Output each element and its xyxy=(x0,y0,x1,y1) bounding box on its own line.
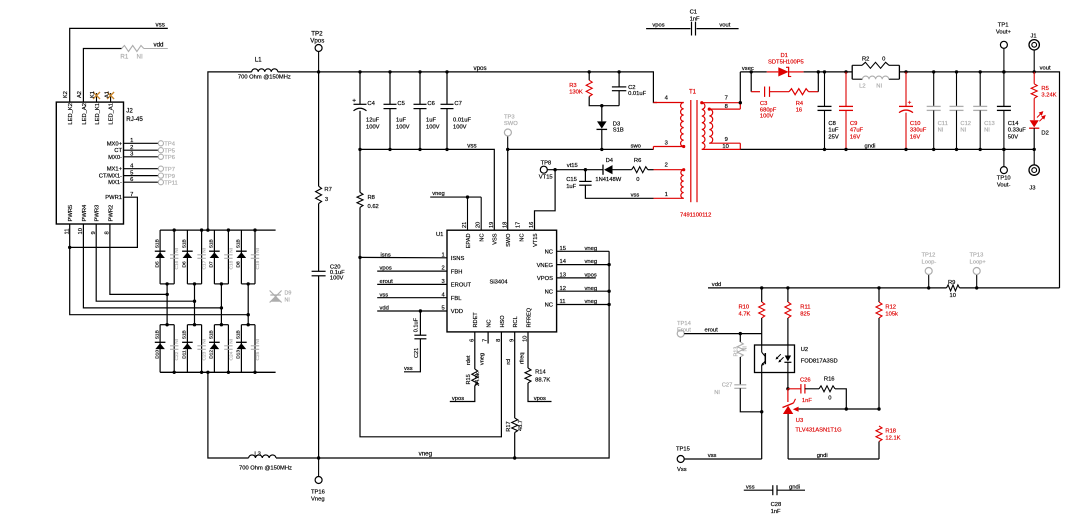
LED U2 input diode xyxy=(784,345,791,373)
svg-text:700 Ohm @150MHz: 700 Ohm @150MHz xyxy=(238,74,291,80)
wire C27 to emitter xyxy=(740,388,761,412)
pin number 9 xyxy=(91,231,97,234)
resistor R14 xyxy=(525,368,531,383)
label TP16 xyxy=(311,489,325,495)
label D6 xyxy=(182,261,188,267)
diode D3 symbol xyxy=(597,121,608,129)
wire vdd to R10 xyxy=(761,288,763,302)
wire C8 to gnd xyxy=(823,110,826,151)
junction snubber right xyxy=(817,70,820,73)
svg-text:PWR2: PWR2 xyxy=(108,205,114,222)
svg-text:FBL: FBL xyxy=(451,296,462,302)
svg-text:D6: D6 xyxy=(182,261,188,267)
no-connect X on K1 xyxy=(93,92,100,99)
svg-text:D11: D11 xyxy=(182,350,188,359)
wire C5 to vss rail xyxy=(389,109,391,150)
label TP2 xyxy=(311,30,323,37)
svg-text:S1B: S1B xyxy=(236,239,242,248)
pin label NC U1 right xyxy=(545,289,553,295)
svg-text:1: 1 xyxy=(130,138,133,144)
label TP11 xyxy=(164,180,177,186)
pin number 10 xyxy=(78,228,84,234)
pin number 7 T1 xyxy=(725,96,728,102)
capacitor C17 (NI) xyxy=(197,255,205,258)
testpoint TP16 xyxy=(315,458,322,484)
resistor R7 xyxy=(316,186,322,203)
resistor R16 xyxy=(805,386,835,392)
wire gnd rail xyxy=(740,148,1034,150)
label C17 xyxy=(202,260,208,269)
label U3 value TLV431ASN1T1G xyxy=(795,427,842,433)
svg-text:Vss: Vss xyxy=(677,467,687,473)
label NI of C25 xyxy=(255,339,261,344)
svg-text:R11: R11 xyxy=(800,305,810,311)
net label vpos pin 13 xyxy=(585,273,597,279)
label Loop- xyxy=(922,259,937,265)
svg-text:EPAD: EPAD xyxy=(466,234,472,249)
resistor R8 xyxy=(357,192,363,207)
capacitor C18 (NI) xyxy=(224,255,232,258)
label C13 value NI xyxy=(984,128,990,134)
svg-text:R14: R14 xyxy=(535,370,546,376)
wire bridge column center D6-D11 xyxy=(194,284,196,325)
junction C26 node xyxy=(786,387,789,390)
net label vpos R14 xyxy=(534,396,546,402)
wire net erout xyxy=(684,333,762,335)
svg-text:C5: C5 xyxy=(397,101,404,107)
label TP5 xyxy=(164,148,175,154)
junction cell top D13 xyxy=(247,323,250,326)
wire R6 to T1 pin2 xyxy=(648,169,654,171)
junction ref node R16 xyxy=(845,407,848,410)
wire vss to R8 xyxy=(359,149,361,192)
svg-text:PWR5: PWR5 xyxy=(68,205,74,222)
capacitor C15 xyxy=(579,181,591,185)
junction vss rail C7 xyxy=(445,148,448,151)
label TP6 xyxy=(164,155,175,161)
svg-text:Vout-: Vout- xyxy=(997,183,1011,189)
testpoint TP6 xyxy=(158,154,163,159)
wire U3 anode to gndi xyxy=(787,414,789,459)
junction C8 rail xyxy=(823,70,826,73)
label C24 xyxy=(228,351,234,360)
svg-text:D12: D12 xyxy=(209,350,215,359)
svg-text:SWO: SWO xyxy=(504,121,518,127)
LED D2 symbol xyxy=(1029,112,1045,128)
pin number 20 U1 xyxy=(476,222,482,228)
junction snubber left xyxy=(750,70,753,73)
wire snubber left leg h xyxy=(751,91,760,93)
svg-text:CT: CT xyxy=(114,148,122,154)
junction vss rail R8 xyxy=(358,148,361,151)
svg-text:vpos: vpos xyxy=(380,266,392,272)
svg-text:MX0+: MX0+ xyxy=(107,141,123,147)
svg-text:vpos: vpos xyxy=(534,396,546,402)
label TP4 xyxy=(164,142,175,148)
svg-text:NI: NI xyxy=(202,339,208,344)
svg-text:C25: C25 xyxy=(255,351,261,360)
testpoint TP5 xyxy=(158,148,163,153)
svg-text:3: 3 xyxy=(325,197,328,203)
pin number 3 xyxy=(130,152,133,158)
label C26 xyxy=(800,377,811,383)
junction output rail C14 xyxy=(1002,70,1005,106)
svg-text:vpos: vpos xyxy=(585,273,597,279)
svg-text:16V: 16V xyxy=(910,135,920,141)
svg-text:ISNS: ISNS xyxy=(451,256,465,262)
wire vpos to C7 xyxy=(446,72,448,104)
label D4 xyxy=(606,158,614,164)
label R5 value 3.24K xyxy=(1041,92,1056,98)
svg-text:Vneg: Vneg xyxy=(311,496,325,502)
transformer T1 primary winding 4-3 xyxy=(681,103,684,147)
pin label EROUT U1 xyxy=(451,283,472,289)
testpoint TP3 (white) xyxy=(504,129,511,149)
capacitor C20 xyxy=(312,271,326,276)
svg-text:gndi: gndi xyxy=(865,144,876,150)
svg-text:1nF: 1nF xyxy=(771,509,781,515)
resistor R9 xyxy=(947,285,960,291)
label C16 xyxy=(174,260,180,269)
label C11 xyxy=(938,121,948,127)
label L1 value 700 Ohm @150MHz xyxy=(238,74,291,80)
svg-text:TP9: TP9 xyxy=(164,174,175,180)
label R17 xyxy=(506,421,512,431)
wire vpos to C2 xyxy=(618,72,620,87)
label C11 value NI xyxy=(938,128,944,134)
wire vpos to R7 xyxy=(318,72,320,186)
junction bottom rail at C24 xyxy=(227,371,230,374)
pin label SWO U1 top xyxy=(506,233,512,247)
optocoupler U2 FOD817A3SD body xyxy=(755,345,795,373)
wire C11 to gnd xyxy=(932,110,935,151)
svg-text:NC: NC xyxy=(545,303,553,309)
svg-text:vneg: vneg xyxy=(585,299,598,305)
label NI of C19 xyxy=(255,248,261,253)
junction top rail at C18 xyxy=(227,228,230,231)
label C3 value 100V xyxy=(760,114,774,120)
capacitor C24 (NI) xyxy=(224,346,232,350)
svg-text:NI: NI xyxy=(255,248,261,253)
svg-text:TP4: TP4 xyxy=(164,142,175,148)
wire D3 to swo xyxy=(601,130,603,150)
wire C21 to vss stub xyxy=(404,339,420,372)
junction vpos rail C5 xyxy=(388,70,391,73)
wire vss rail xyxy=(360,149,494,230)
pin number 2 T1 xyxy=(665,163,668,169)
net label vss T1 pin1 xyxy=(631,193,640,199)
svg-text:PWR1: PWR1 xyxy=(105,195,122,201)
svg-text:6: 6 xyxy=(130,177,133,183)
svg-text:Vout+: Vout+ xyxy=(996,30,1012,36)
svg-text:1N4148W: 1N4148W xyxy=(595,177,621,183)
label Loop+ xyxy=(970,259,987,265)
svg-text:VPOS: VPOS xyxy=(537,276,553,282)
label C7 xyxy=(454,101,461,107)
svg-text:C28: C28 xyxy=(771,502,782,508)
wire R12 to divider node xyxy=(878,318,880,409)
label R10 value 4.7K xyxy=(739,312,751,318)
svg-text:R18: R18 xyxy=(885,428,896,434)
svg-text:5: 5 xyxy=(130,170,133,176)
svg-text:VDD: VDD xyxy=(451,309,463,315)
label TP3 xyxy=(504,114,515,120)
junction vpos rail C6 xyxy=(418,70,421,73)
label C10 value 16V xyxy=(910,135,920,141)
svg-text:+: + xyxy=(908,99,912,106)
pin label FBL U1 xyxy=(451,296,462,302)
label D5 xyxy=(154,261,160,267)
diode D5 S1B cell xyxy=(160,230,174,284)
testpoint TP13 (loop+) xyxy=(973,268,980,288)
svg-text:C17: C17 xyxy=(202,260,208,269)
label C21 xyxy=(414,348,420,358)
wire U1 pin 3 net erout xyxy=(377,283,447,285)
svg-text:R5: R5 xyxy=(1041,86,1048,92)
net label rcl xyxy=(506,359,512,365)
transformer T1 pin 1 stub xyxy=(654,197,684,199)
svg-text:PWR3: PWR3 xyxy=(95,205,101,222)
label R14 xyxy=(535,370,546,376)
label R3 value 130K xyxy=(569,90,583,96)
svg-text:2: 2 xyxy=(665,163,668,169)
svg-text:25V: 25V xyxy=(828,135,838,141)
pin label RCL U1 bottom xyxy=(513,316,519,327)
pin label PWR1 xyxy=(105,195,122,201)
pin label PWR2 xyxy=(108,205,114,222)
pin label VPOS U1 right xyxy=(537,276,553,282)
pin label VT15 U1 top xyxy=(533,234,539,247)
pin label CT/MX1- xyxy=(99,174,122,180)
label NI of C16 xyxy=(174,248,180,253)
wire C6 to vss rail xyxy=(419,109,421,150)
label C26 value 1nF xyxy=(802,398,812,404)
connector J3 xyxy=(1029,149,1039,175)
svg-text:K1: K1 xyxy=(90,91,96,98)
svg-text:A2: A2 xyxy=(77,91,83,98)
wire R11 to U2 xyxy=(787,318,789,345)
wire net vss top-left xyxy=(70,28,168,102)
pin number 8 T1 xyxy=(725,104,728,110)
svg-text:C22: C22 xyxy=(174,351,180,360)
resistor R18 xyxy=(876,426,882,442)
svg-text:isns: isns xyxy=(381,252,391,258)
label C4 value 12uF xyxy=(366,117,380,123)
testpoint TP10 xyxy=(1000,149,1007,173)
label C10 xyxy=(910,121,921,127)
svg-text:47uF: 47uF xyxy=(850,128,864,134)
diode D10 symbol xyxy=(155,342,166,349)
label D9 xyxy=(285,291,292,297)
wire net vt15 xyxy=(547,169,603,171)
svg-text:C14: C14 xyxy=(1008,121,1019,127)
pin number 13 U1 right xyxy=(560,273,566,279)
transformer T1 core xyxy=(691,100,697,202)
svg-text:NI: NI xyxy=(938,128,944,134)
wire bridge bottom rail xyxy=(160,371,276,373)
pin number 3 T1 xyxy=(665,140,668,146)
svg-text:vt15: vt15 xyxy=(567,163,578,169)
label C10 value 330uF xyxy=(910,128,927,134)
label R9 xyxy=(948,280,955,286)
net label rdet xyxy=(466,355,472,365)
svg-text:RCL: RCL xyxy=(513,316,519,327)
wire vpos to R3 xyxy=(588,72,590,80)
svg-text:NI: NI xyxy=(285,298,290,304)
label C14 value 50V xyxy=(1008,135,1018,141)
svg-text:vss: vss xyxy=(404,366,413,372)
label C8 value 1uF xyxy=(828,128,838,134)
transformer T1 secondary winding 8-9 xyxy=(708,108,713,144)
wire J2 pin 11 PWR5 to bridge xyxy=(70,224,249,315)
svg-text:NI: NI xyxy=(876,83,882,89)
svg-text:vneg: vneg xyxy=(432,191,445,197)
svg-text:U1: U1 xyxy=(436,232,443,238)
pin number 4 T1 xyxy=(665,95,669,101)
svg-text:C3: C3 xyxy=(760,101,767,107)
svg-text:NC: NC xyxy=(545,250,553,256)
svg-text:VSS: VSS xyxy=(493,233,499,244)
pin number 21 U1 xyxy=(462,222,468,228)
label C9 xyxy=(850,121,857,127)
testpoint TP15 xyxy=(677,456,684,463)
svg-text:gndi: gndi xyxy=(817,453,828,459)
wire R7 to C20 xyxy=(318,204,320,272)
wire U1 pin 11 net vneg xyxy=(557,304,610,306)
wire vss to C28 xyxy=(744,489,773,491)
wire R17 to vneg rail xyxy=(514,433,516,459)
pin label MX0- xyxy=(108,155,122,161)
junction output rail C10 xyxy=(904,70,907,106)
pin label LED_K1 xyxy=(95,103,101,125)
svg-text:4.7K: 4.7K xyxy=(739,312,751,318)
svg-text:C15: C15 xyxy=(566,177,577,183)
svg-text:vss: vss xyxy=(156,22,165,29)
wire R14 to vpos stub xyxy=(528,383,552,402)
diode D11 symbol xyxy=(182,342,193,349)
wire J2 pin 8 PWR2 to bridge xyxy=(110,224,167,294)
pin name A1 xyxy=(104,91,110,98)
junction C20/TP16 on vneg rail xyxy=(317,456,320,459)
svg-text:NI: NI xyxy=(255,339,261,344)
svg-text:vneg: vneg xyxy=(479,353,485,365)
svg-text:L2: L2 xyxy=(859,83,865,89)
junction cell top D10 xyxy=(165,323,168,326)
capacitor C3 xyxy=(765,87,770,97)
junction isns on R8 line xyxy=(358,256,361,259)
svg-text:S1B: S1B xyxy=(182,239,188,248)
svg-text:C8: C8 xyxy=(828,121,835,127)
label D7 xyxy=(209,261,215,267)
wire J2 pin 1 MX0+ to TP4 xyxy=(124,142,159,144)
svg-text:3: 3 xyxy=(665,140,668,146)
label D3 value S1B xyxy=(613,128,624,134)
capacitor C14 xyxy=(997,106,1011,110)
label C1 value 1nF xyxy=(690,16,700,22)
capacitor C10 polarized xyxy=(899,106,913,112)
capacitor C8 xyxy=(818,106,832,110)
resistor R6 xyxy=(632,167,648,173)
pin label NC U1 bottom xyxy=(487,319,493,327)
junction vpos rail C4 xyxy=(358,70,361,73)
svg-text:EROUT: EROUT xyxy=(451,283,472,289)
svg-text:S1B: S1B xyxy=(154,239,160,248)
junction bridge column at (221.4,307.9) xyxy=(220,306,223,309)
wire U1 pin 14 net vneg xyxy=(557,264,610,266)
junction R11 vdd xyxy=(786,286,789,289)
svg-text:rfreq: rfreq xyxy=(519,352,525,364)
junction bottom rail at C25 xyxy=(253,371,256,374)
label Vout- xyxy=(997,183,1011,189)
net label vneg pin 15 xyxy=(585,246,598,252)
pin label NC U1 top xyxy=(520,234,526,242)
resistor R10 xyxy=(759,302,765,318)
pin label NC U1 top xyxy=(479,234,485,242)
label R2 xyxy=(862,57,869,63)
pin label PWR5 xyxy=(68,205,74,222)
wire vpos to C1 xyxy=(646,28,690,30)
wire vdd to R12 xyxy=(878,288,880,302)
svg-text:TP2: TP2 xyxy=(311,30,323,37)
net label vss C28 xyxy=(746,484,755,490)
label C20 xyxy=(330,264,341,270)
label D1 value SDT5H100P5 xyxy=(768,59,804,65)
capacitor C27 (NI) xyxy=(734,385,746,389)
label D3 xyxy=(613,121,620,127)
svg-text:R4: R4 xyxy=(796,101,804,107)
wire net vdd top-left xyxy=(83,49,121,103)
wire RDET to R15 xyxy=(474,332,476,369)
svg-text:1nF: 1nF xyxy=(802,398,812,404)
svg-text:vss: vss xyxy=(631,193,640,199)
svg-text:D8: D8 xyxy=(236,261,242,267)
svg-text:VT15: VT15 xyxy=(533,234,539,247)
label R17 value 48.7 xyxy=(518,420,524,431)
pin label FBH U1 xyxy=(451,269,463,275)
label C5 value 100V xyxy=(396,124,410,130)
pin name A2 xyxy=(77,91,83,98)
svg-text:RDET: RDET xyxy=(473,312,479,328)
pin number 6 xyxy=(130,177,133,183)
svg-text:D13: D13 xyxy=(236,350,242,359)
junction vpos R3 xyxy=(588,70,591,73)
wire U1 pin 2 net vpos xyxy=(377,270,447,272)
net label erout xyxy=(705,328,719,334)
testpoint TP14 (erout) xyxy=(677,330,684,337)
label R1 NI xyxy=(120,54,143,61)
transformer T1 primary winding 2-1 xyxy=(681,170,684,199)
wire R13 to C27 xyxy=(739,357,741,385)
junction bridge column at (194.5,301.2) xyxy=(193,300,196,303)
svg-text:C21: C21 xyxy=(414,348,420,358)
label + of C4 xyxy=(352,98,356,105)
wire vt15 to C15 xyxy=(584,170,586,182)
label D1 xyxy=(781,53,788,59)
pin label VNEG U1 right xyxy=(537,263,554,269)
label TP1 xyxy=(998,23,1009,29)
wire U3 ref to divider xyxy=(799,408,879,410)
svg-text:D2: D2 xyxy=(1041,131,1048,137)
svg-text:100V: 100V xyxy=(396,124,410,130)
net label erout U1 pin 3 xyxy=(380,279,394,285)
net label vss U1 pin 4 xyxy=(380,292,389,298)
label D12 xyxy=(209,350,215,359)
svg-text:C9: C9 xyxy=(850,121,857,127)
pin number 18 U1 xyxy=(502,222,508,228)
wire J2 pin 3 MX0- to TP6 xyxy=(124,156,159,158)
label TP15 xyxy=(676,446,690,452)
svg-text:C19: C19 xyxy=(255,260,261,269)
